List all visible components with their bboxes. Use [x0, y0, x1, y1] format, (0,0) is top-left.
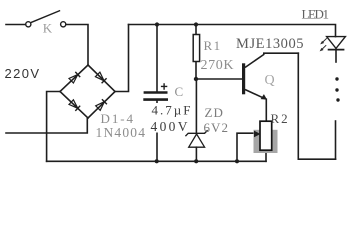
wire: R2 bottom lead [265, 150, 267, 161]
node: top rail / R1 junction [194, 22, 198, 26]
wire: switch to bridge top vertex [66, 25, 88, 65]
wire: bridge edge bottom-right [88, 92, 115, 119]
diode D4 (bridge bottom-right arm) [96, 102, 105, 111]
wire: top positive rail [129, 25, 336, 37]
wire: zener ZD bottom lead [195, 147, 197, 161]
LED string continuation dots [335, 77, 338, 80]
wire: bridge edge top-right [88, 65, 115, 92]
wire: bridge edge bottom-left [60, 92, 88, 119]
LED1 triangle [327, 37, 346, 49]
wire: base node down to zener ZD [195, 79, 197, 133]
svg-text:1N4004: 1N4004 [96, 125, 146, 140]
svg-text:R2: R2 [271, 111, 290, 126]
node: ground rail / capacitor junction [155, 159, 159, 163]
wire: base wire to Q1 [196, 78, 242, 80]
wire: LED string bottom segment [335, 121, 337, 159]
transistor Q1 emitter arrowhead [261, 94, 267, 100]
switch K blade [32, 11, 60, 22]
wire: R1 top lead [195, 25, 197, 35]
svg-text:6V2: 6V2 [204, 120, 229, 135]
resistor R2 body [260, 121, 272, 150]
node: ground rail / zener junction [194, 159, 198, 163]
wire: emitter to R2 top [265, 99, 267, 121]
zener diode ZD cathode bar with bent ends [185, 130, 207, 136]
svg-text:Q: Q [265, 73, 275, 88]
svg-text:4.7µF: 4.7µF [152, 103, 191, 118]
capacitor C bottom plate [143, 98, 168, 101]
LED1 light emission arrows [320, 38, 327, 51]
switch K right contact [61, 22, 66, 27]
svg-text:270K: 270K [201, 58, 234, 73]
wire: bridge positive output riser [115, 25, 129, 92]
resistor R1 body [193, 35, 199, 62]
svg-text:ZD: ZD [205, 105, 224, 120]
svg-text:400V: 400V [151, 119, 188, 134]
svg-text:K: K [43, 21, 53, 36]
wire: capacitor top lead [156, 25, 158, 92]
wire: R2 wiper return to ground rail [237, 133, 257, 161]
diode D1 (bridge top-left arm) [69, 75, 78, 84]
wire: AC live lead [6, 24, 26, 26]
transistor Q1 emitter stroke [245, 90, 265, 99]
switch K left contact [26, 22, 31, 27]
transistor Q1 base bar [242, 63, 245, 94]
wire: loop right-side drop [297, 53, 299, 159]
svg-text:MJE13005: MJE13005 [236, 36, 304, 52]
node: top rail / capacitor junction [155, 22, 159, 26]
wire: bridge negative output to ground rail [47, 92, 60, 162]
wire: LED1 cathode stub [335, 49, 337, 62]
wire: loop bottom run [298, 158, 335, 160]
capacitor C polarity plus sign [161, 83, 167, 89]
zener diode ZD triangle [189, 134, 205, 147]
node: base tap junction [194, 77, 198, 81]
diode D2 (bridge top-right arm) [95, 72, 104, 81]
svg-text:R1: R1 [204, 38, 222, 53]
resistor R2 gray highlight box [254, 130, 278, 153]
LED1 cathode bar [328, 49, 345, 51]
wire: capacitor bottom lead [156, 101, 158, 162]
svg-text:C: C [175, 84, 184, 99]
R2 wiper arrowhead [254, 131, 261, 138]
wire: AC neutral lead to bridge bottom vertex [6, 119, 87, 134]
capacitor C top plate [144, 91, 168, 94]
svg-text:220V: 220V [5, 66, 40, 81]
svg-text:LED1: LED1 [302, 6, 330, 21]
wire: bottom ground rail [47, 160, 266, 162]
wire: collector to loop corner [264, 52, 299, 54]
node: ground rail / wiper junction [235, 159, 239, 163]
wire: bridge edge top-left [60, 65, 88, 92]
svg-text:D1-4: D1-4 [101, 111, 134, 126]
transistor Q1 collector stroke [245, 53, 264, 67]
wire: R1 bottom lead to base node [195, 62, 197, 80]
diode D3 (bridge bottom-left arm) [69, 100, 78, 109]
